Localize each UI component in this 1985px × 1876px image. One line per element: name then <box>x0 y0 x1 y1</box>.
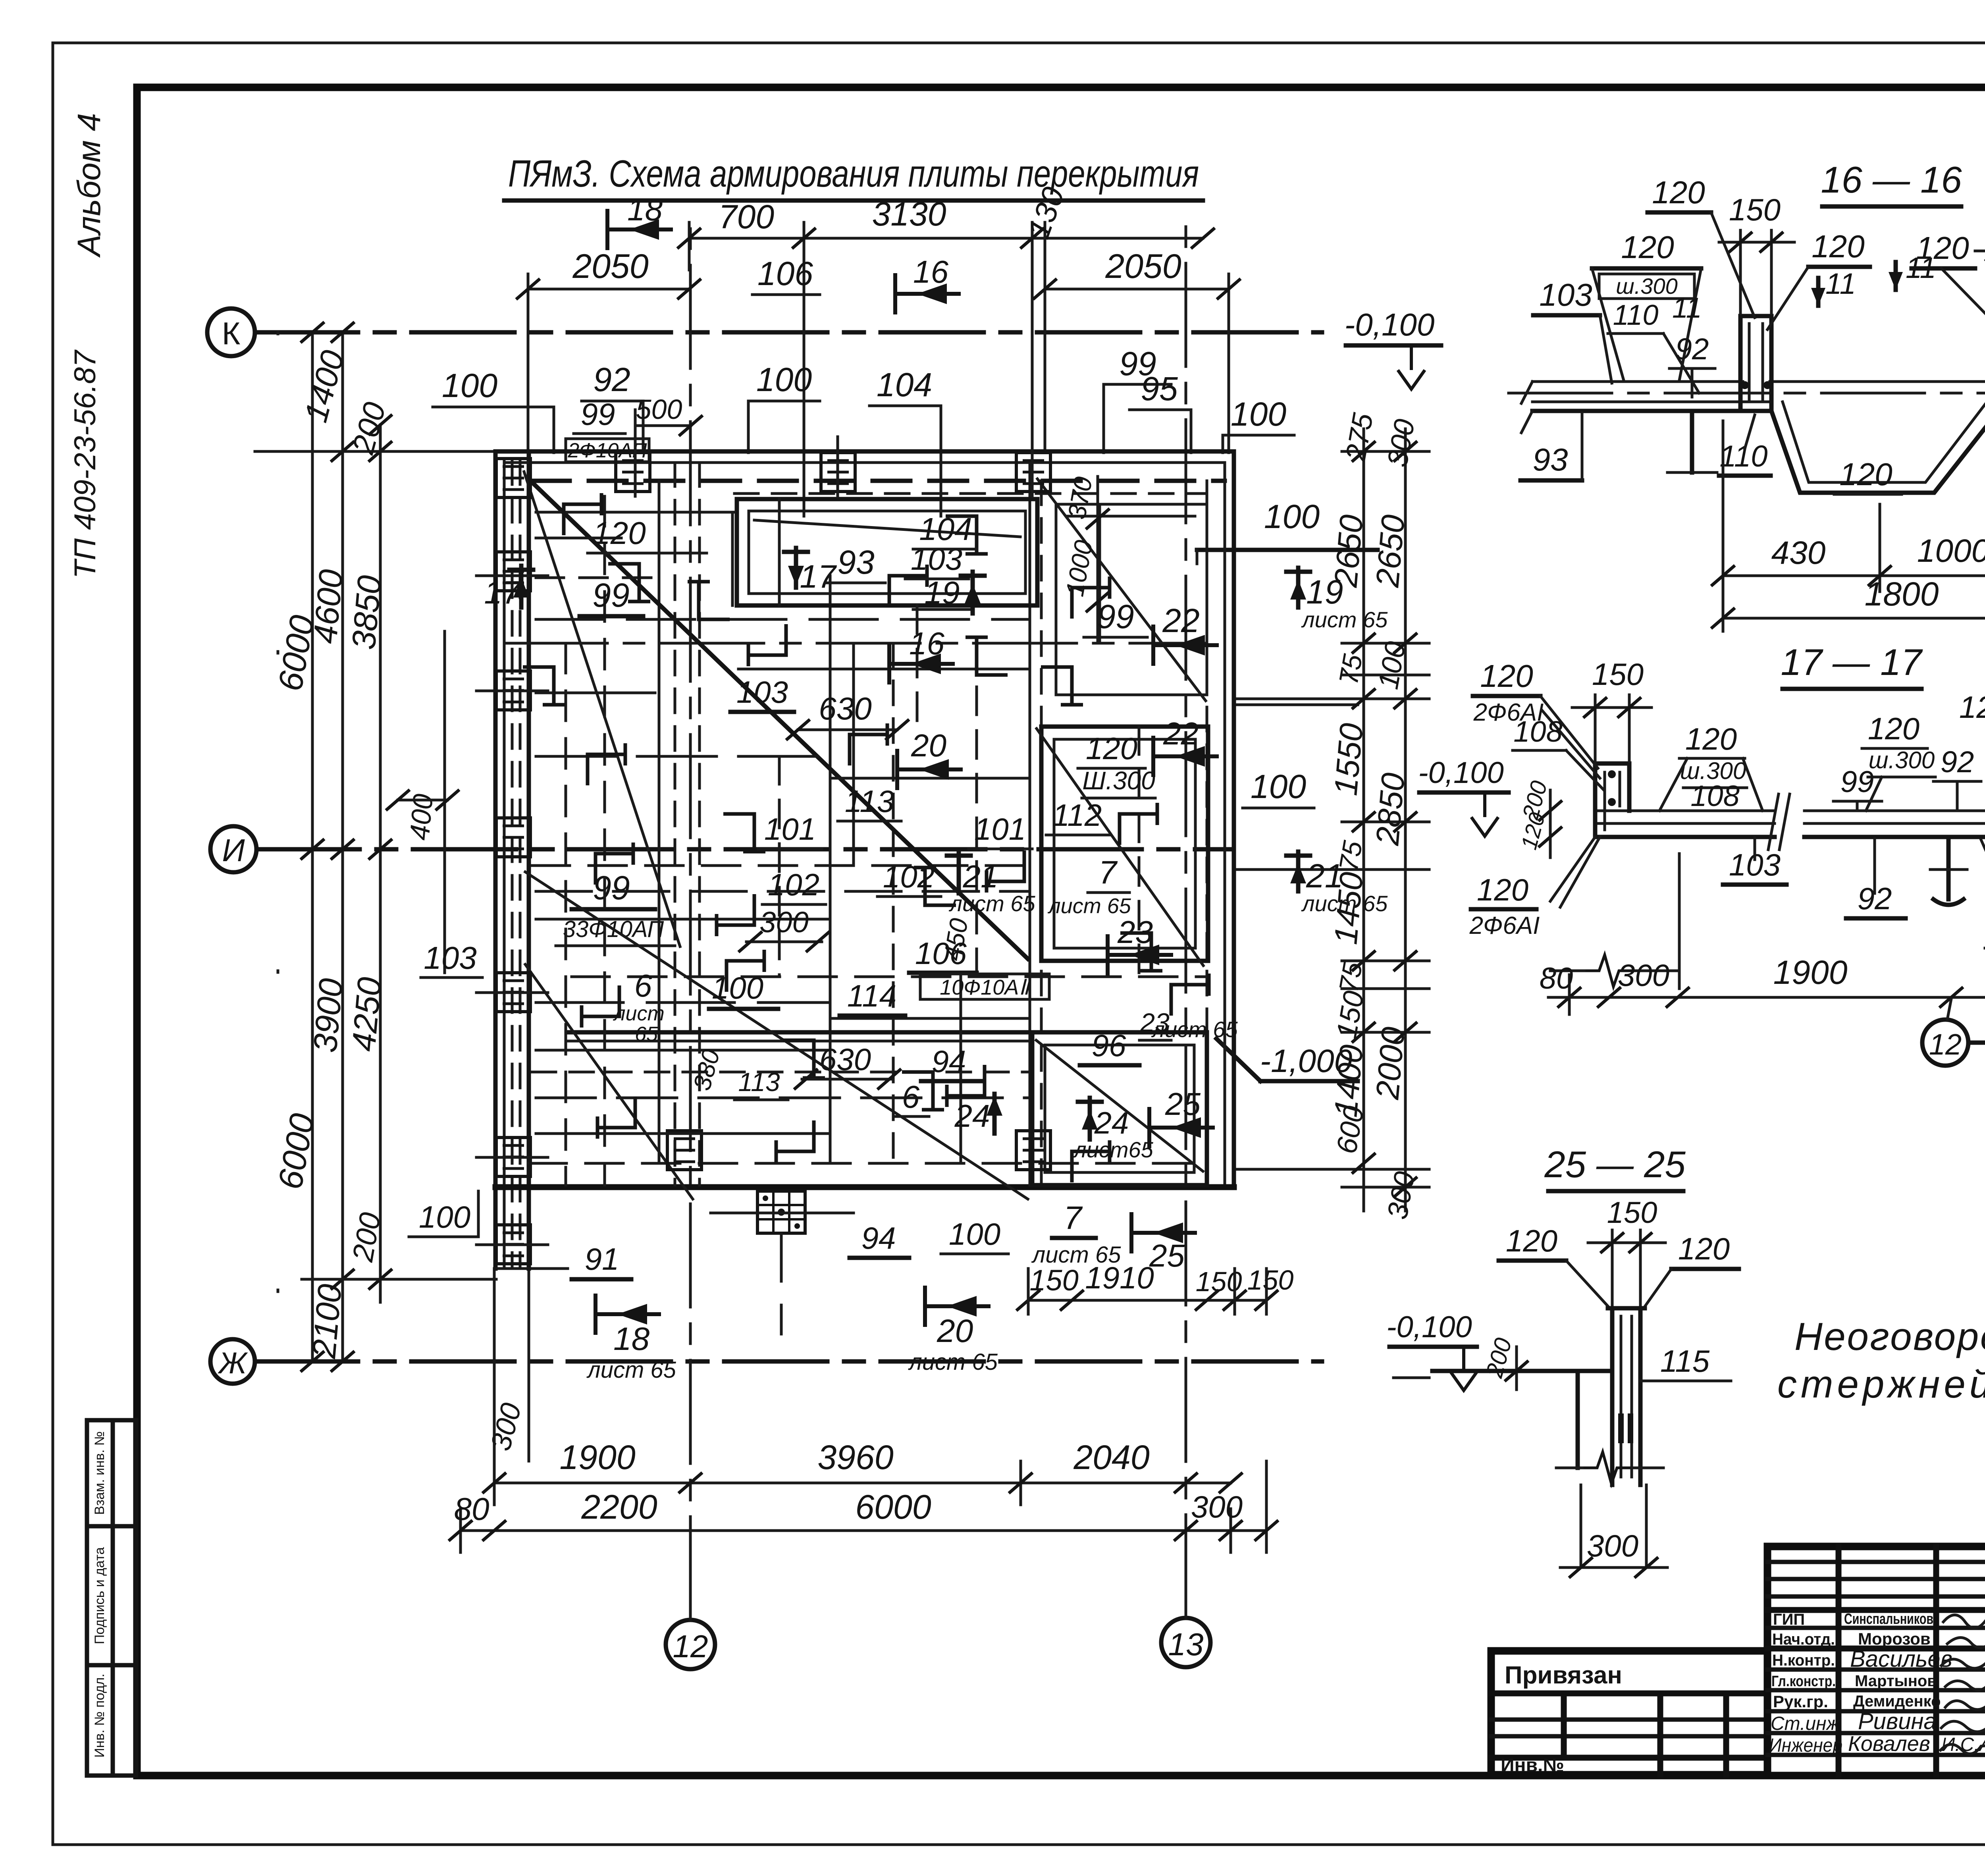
svg-text:Нач.отд.: Нач.отд. <box>1772 1631 1835 1648</box>
svg-text:Ст.инж: Ст.инж <box>1771 1713 1840 1734</box>
svg-text:500: 500 <box>636 394 682 425</box>
svg-text:16: 16 <box>913 254 948 289</box>
svg-text:108: 108 <box>1690 779 1739 812</box>
diagonal right-mid <box>1037 729 1203 966</box>
svg-text:ГИП: ГИП <box>1773 1611 1805 1628</box>
svg-text:лист 65: лист 65 <box>1301 607 1388 632</box>
interior horizontal dash y2460 <box>572 976 1207 978</box>
section 16-16 dims 430 1000 370 <box>1711 421 1985 631</box>
svg-text:Рук.гр.: Рук.гр. <box>1773 1692 1828 1711</box>
svg-text:2Ф6АІ: 2Ф6АІ <box>1469 912 1540 939</box>
svg-text:2050: 2050 <box>572 247 648 285</box>
right dim chain verticals <box>1235 429 1429 1211</box>
svg-text:стержней 200мм.: стержней 200мм. <box>1777 1362 1985 1406</box>
svg-text:99: 99 <box>581 397 615 432</box>
svg-text:112: 112 <box>1052 798 1102 833</box>
svg-text:Взам. инв. №: Взам. инв. № <box>92 1431 107 1515</box>
plan label 25 arrow upper <box>1149 1107 1215 1148</box>
right middle room <box>1041 727 1208 961</box>
right top room <box>1056 504 1207 695</box>
svg-text:150: 150 <box>1729 192 1781 227</box>
right bottom room <box>1032 1032 1207 1185</box>
plan cut 16 <box>889 643 955 684</box>
svg-text:Инв. № подл.: Инв. № подл. <box>92 1674 107 1758</box>
interior horizontal chain y1620 <box>504 642 1207 645</box>
svg-text:25: 25 <box>1149 1238 1185 1273</box>
svg-text:лист 65: лист 65 <box>948 891 1035 916</box>
plan label 23 <box>1108 934 1173 976</box>
section 17-17 circles 12 13 <box>1922 999 1985 1066</box>
plan cut 20 <box>897 749 963 790</box>
svg-text:120: 120 <box>1678 1231 1730 1266</box>
svg-text:94: 94 <box>861 1220 896 1255</box>
svg-text:113: 113 <box>845 784 894 819</box>
svg-text:75: 75 <box>1333 652 1368 687</box>
svg-text:93: 93 <box>1533 442 1568 477</box>
plan outer wall top <box>495 451 1234 494</box>
svg-text:103: 103 <box>736 675 788 710</box>
plan label 22 arrow <box>1153 736 1219 777</box>
svg-text:150: 150 <box>1592 657 1644 692</box>
svg-text:103: 103 <box>911 542 962 576</box>
svg-text:лист: лист <box>613 1002 665 1025</box>
svg-text:1550: 1550 <box>1328 722 1370 797</box>
svg-text:Инв.№: Инв.№ <box>1501 1755 1564 1776</box>
svg-text:91: 91 <box>585 1242 619 1276</box>
svg-text:120: 120 <box>1959 690 1985 725</box>
svg-text:17: 17 <box>800 559 837 595</box>
svg-text:21: 21 <box>1306 857 1343 895</box>
top cut 16 <box>895 273 961 314</box>
svg-text:лист65: лист65 <box>1073 1137 1154 1162</box>
svg-text:Подпись и дата: Подпись и дата <box>92 1547 107 1645</box>
section 16-16 T-bar below slab <box>1690 411 1694 472</box>
svg-text:92: 92 <box>1675 332 1709 366</box>
svg-text:Ривина: Ривина <box>1858 1708 1937 1734</box>
svg-text:7: 7 <box>1064 1200 1083 1236</box>
svg-text:2100: 2100 <box>305 1282 349 1360</box>
svg-text:700: 700 <box>719 198 774 235</box>
interior horizontal dash y2180 <box>532 864 1030 867</box>
svg-text:11: 11 <box>1825 267 1856 300</box>
svg-text:11: 11 <box>1672 292 1702 324</box>
svg-text:120: 120 <box>593 515 646 551</box>
left dimension chain lines <box>255 322 496 1372</box>
svg-text:Альбом 4: Альбом 4 <box>71 113 107 258</box>
svg-text:лист 65: лист 65 <box>1151 1017 1238 1042</box>
svg-text:Морозов: Морозов <box>1858 1629 1931 1648</box>
svg-text:2050: 2050 <box>1105 247 1181 285</box>
svg-text:103: 103 <box>424 940 476 976</box>
title block left attach section <box>1491 1651 1767 1776</box>
section 17-17 left flare lines <box>1550 837 1595 901</box>
svg-text:6: 6 <box>902 1079 920 1114</box>
svg-text:12: 12 <box>1929 1028 1962 1061</box>
interior vertical line x2091 <box>829 576 832 1163</box>
svg-text:лист 65: лист 65 <box>1301 891 1388 916</box>
svg-text:300: 300 <box>1618 958 1669 993</box>
svg-text:2850: 2850 <box>1369 771 1412 847</box>
svg-text:102: 102 <box>883 859 935 894</box>
svg-text:лист 65: лист 65 <box>908 1349 998 1375</box>
svg-text:24: 24 <box>1094 1105 1129 1140</box>
svg-text:Мартынов: Мартынов <box>1855 1672 1937 1690</box>
svg-text:4600: 4600 <box>306 568 350 645</box>
svg-text:120: 120 <box>1916 230 1969 266</box>
svg-text:101: 101 <box>974 812 1026 846</box>
section 17-17 break under left <box>1584 955 1634 987</box>
svg-text:Ж: Ж <box>217 1346 248 1380</box>
svg-text:103: 103 <box>1539 277 1592 312</box>
svg-text:300: 300 <box>1587 1528 1638 1563</box>
svg-text:120: 120 <box>1812 229 1864 264</box>
svg-text:99: 99 <box>592 576 629 614</box>
top dim line 700 / 3130 / 130 <box>677 183 1215 516</box>
section 16-16 left wing callout <box>1592 229 1701 380</box>
svg-text:лист 65: лист 65 <box>586 1357 676 1383</box>
svg-text:22: 22 <box>1162 602 1199 639</box>
svg-text:110: 110 <box>1613 299 1659 331</box>
svg-text:100: 100 <box>1251 768 1306 805</box>
svg-text:Васильев: Васильев <box>1850 1646 1952 1672</box>
svg-text:101: 101 <box>764 812 816 846</box>
diagonal top-right <box>1037 479 1206 701</box>
svg-text:3130: 3130 <box>872 195 946 233</box>
svg-text:лист 65: лист 65 <box>1031 1242 1122 1268</box>
svg-text:Гл.констр.: Гл.констр. <box>1771 1673 1836 1690</box>
axis 13 <box>1161 222 1210 1667</box>
svg-text:Привязан: Привязан <box>1505 1662 1622 1689</box>
svg-text:Инженер: Инженер <box>1769 1735 1842 1756</box>
svg-text:ТП 409-23-56.87: ТП 409-23-56.87 <box>68 349 102 578</box>
svg-text:96: 96 <box>1092 1028 1126 1063</box>
left stamp boxes <box>87 1420 136 1776</box>
svg-text:И: И <box>222 833 245 868</box>
bottom wall hatched columns <box>667 1131 701 1170</box>
svg-text:1900: 1900 <box>1773 954 1848 991</box>
section 17-17 vert dims 200 120 <box>1549 790 1552 858</box>
svg-text:18: 18 <box>627 192 663 227</box>
svg-text:108: 108 <box>1513 715 1562 748</box>
interior vertical line x2250 <box>892 643 895 1163</box>
extra rebar lines in plan <box>536 496 1139 1185</box>
svg-text:113: 113 <box>738 1067 780 1097</box>
svg-text:16: 16 <box>909 626 944 661</box>
svg-text:80: 80 <box>454 1491 490 1527</box>
section 16-16 slab <box>1509 382 1985 433</box>
svg-text:Ш.300: Ш.300 <box>1082 766 1155 795</box>
svg-text:95: 95 <box>1141 370 1178 407</box>
small cross ties on walls <box>476 437 1032 1245</box>
plan outer wall left <box>495 451 529 1269</box>
svg-text:ПЯмЗ. Схема армирования плиты: ПЯмЗ. Схема армирования плиты перекрытия <box>508 152 1199 195</box>
svg-text:150: 150 <box>1029 1264 1078 1297</box>
svg-text:150: 150 <box>1247 1265 1294 1296</box>
svg-text:120: 120 <box>1839 457 1892 492</box>
left wall columns <box>496 552 530 591</box>
svg-text:1900: 1900 <box>559 1438 635 1477</box>
svg-text:23: 23 <box>1117 914 1153 950</box>
svg-text:Ковалев: Ковалев <box>1848 1732 1930 1756</box>
verticals <box>1836 1546 1842 1775</box>
axis K <box>207 308 1322 356</box>
plan label 25 bottom <box>1131 1212 1197 1253</box>
svg-text:100: 100 <box>442 367 497 404</box>
section 25-25 left slab lines <box>1432 1369 1612 1373</box>
svg-text:120: 120 <box>1685 721 1737 756</box>
svg-text:99: 99 <box>593 869 630 906</box>
top-center opening rect <box>737 499 1037 605</box>
svg-text:92: 92 <box>593 361 630 398</box>
title block signatures squiggles <box>1941 1615 1985 1754</box>
plan bottom edge <box>495 1163 1234 1269</box>
svg-text:104: 104 <box>919 511 972 547</box>
svg-text:12: 12 <box>673 1629 708 1664</box>
svg-text:100: 100 <box>949 1217 1000 1251</box>
svg-text:К: К <box>222 316 241 351</box>
top dim 2050 left <box>516 247 701 453</box>
svg-text:10Ф10АⅡ: 10Ф10АⅡ <box>940 976 1031 999</box>
section 25-25 bottom dim 300 <box>1580 1485 1582 1566</box>
bottom cut 18 list65 <box>595 1294 661 1335</box>
section 25-25 break <box>1582 1452 1632 1484</box>
top dim 2050 right <box>1033 247 1241 453</box>
svg-text:120: 120 <box>1506 1223 1557 1258</box>
section 17-17 bottom dims 80 300 1900 700 <box>1540 954 1985 1014</box>
svg-text:93: 93 <box>837 544 874 581</box>
svg-text:100: 100 <box>419 1199 470 1234</box>
bottom dim row 150 1910 150 150 <box>1016 1260 1293 1314</box>
svg-text:Синспальников: Синспальников <box>1844 1611 1933 1627</box>
svg-text:120: 120 <box>1868 711 1919 746</box>
svg-text:120: 120 <box>1480 658 1533 694</box>
svg-text:80: 80 <box>1540 962 1573 995</box>
interior vertical wall at axis 12 <box>659 463 700 1185</box>
svg-text:7: 7 <box>1098 854 1118 891</box>
bottom cut 20 list65 <box>925 1286 991 1327</box>
section 17-17 I-beam below slab <box>1930 837 1967 905</box>
svg-text:120: 120 <box>1652 175 1705 210</box>
svg-text:Н.контр.: Н.контр. <box>1772 1652 1835 1669</box>
svg-text:-0,100: -0,100 <box>1345 307 1435 342</box>
section 16-16 left post <box>1740 316 1771 411</box>
svg-text:2040: 2040 <box>1073 1438 1149 1477</box>
svg-text:1000: 1000 <box>1917 533 1985 569</box>
svg-text:19: 19 <box>925 575 960 610</box>
svg-text:-0,100: -0,100 <box>1418 756 1504 790</box>
grid hatched box bottom center <box>757 1191 805 1233</box>
axis Zh <box>210 1339 1322 1384</box>
svg-text:150: 150 <box>1607 1196 1657 1230</box>
diagonal bottom-left steep <box>525 964 693 1199</box>
axis I <box>210 826 1231 872</box>
long diagonal steep <box>524 472 680 947</box>
svg-text:3900: 3900 <box>306 977 350 1054</box>
svg-text:24: 24 <box>954 1098 990 1134</box>
svg-text:65: 65 <box>635 1023 658 1046</box>
svg-text:6: 6 <box>634 968 652 1003</box>
svg-text:1800: 1800 <box>1865 575 1939 613</box>
svg-text:300: 300 <box>759 906 808 939</box>
svg-text:19: 19 <box>1306 573 1343 611</box>
svg-text:120: 120 <box>1477 872 1528 907</box>
svg-text:18: 18 <box>613 1321 650 1357</box>
plan cut 17 top arrow <box>794 548 798 588</box>
section 25-25 wall <box>1608 1308 1645 1485</box>
top mini rows <box>1767 1560 1985 1564</box>
svg-text:106: 106 <box>757 255 813 292</box>
svg-text:25 — 25: 25 — 25 <box>1544 1143 1686 1185</box>
svg-text:6000: 6000 <box>855 1488 931 1526</box>
svg-text:92: 92 <box>1941 745 1974 779</box>
section 17-17 slab <box>1595 794 1985 850</box>
svg-text:2200: 2200 <box>581 1488 657 1526</box>
top dim row: 18 cut symbol <box>607 209 673 250</box>
top wall columns <box>616 453 650 492</box>
interior horizontal dash y2700 <box>532 1071 1030 1074</box>
svg-text:102: 102 <box>768 867 819 902</box>
svg-text:115: 115 <box>1660 1344 1710 1379</box>
section 16-16 dims 1800 300 1400 <box>1711 469 1985 633</box>
svg-text:99: 99 <box>1840 765 1874 799</box>
rebar hook brackets scatter <box>564 493 601 535</box>
svg-text:-1,000: -1,000 <box>1260 1043 1353 1079</box>
svg-text:94: 94 <box>932 1044 966 1079</box>
svg-text:13: 13 <box>1168 1627 1204 1662</box>
svg-text:100: 100 <box>1231 395 1286 433</box>
svg-text:3960: 3960 <box>817 1438 893 1477</box>
svg-text:4250: 4250 <box>345 976 388 1053</box>
svg-text:120: 120 <box>1086 731 1137 766</box>
svg-text:100: 100 <box>1264 498 1320 535</box>
svg-text:114: 114 <box>847 978 896 1013</box>
section 16-16 pit trapezoid <box>1771 411 1985 493</box>
bottom dim 1900 3960 2040 <box>482 1438 1243 1505</box>
svg-text:25: 25 <box>1165 1086 1201 1122</box>
svg-text:630: 630 <box>819 1042 871 1077</box>
svg-text:110: 110 <box>1719 440 1767 473</box>
svg-text:20: 20 <box>911 728 946 763</box>
svg-text:430: 430 <box>1771 535 1826 571</box>
svg-text:3850: 3850 <box>345 574 388 651</box>
svg-text:100: 100 <box>756 361 812 398</box>
svg-text:Демиденко: Демиденко <box>1853 1693 1941 1710</box>
svg-text:ш.300: ш.300 <box>1616 274 1677 299</box>
svg-text:630: 630 <box>819 691 871 726</box>
axis 12 <box>666 222 715 1669</box>
bottom dim 80 2200 6000 300 <box>449 1461 1278 1552</box>
plan outer wall right <box>1207 451 1234 1187</box>
long diagonal 2 <box>525 872 1028 1199</box>
svg-text:16 — 16: 16 — 16 <box>1821 159 1962 201</box>
svg-text:21: 21 <box>963 859 998 894</box>
svg-text:120: 120 <box>1621 229 1674 265</box>
svg-text:2000: 2000 <box>1369 1026 1412 1101</box>
section 25-25 vert dim 200 <box>1515 1347 1518 1390</box>
svg-text:104: 104 <box>877 366 932 403</box>
svg-text:100: 100 <box>712 970 763 1005</box>
svg-text:20: 20 <box>937 1313 973 1349</box>
interior wall x2594 <box>1030 463 1041 1185</box>
svg-text:17 — 17: 17 — 17 <box>1781 641 1923 683</box>
long diagonal 1 <box>528 478 1028 959</box>
title block main <box>1767 1546 1985 1776</box>
svg-text:-0,100: -0,100 <box>1386 1310 1472 1344</box>
svg-text:300: 300 <box>1191 1489 1243 1524</box>
svg-text:ш.300: ш.300 <box>1869 747 1935 773</box>
svg-text:22: 22 <box>1163 716 1199 751</box>
svg-text:99: 99 <box>1097 598 1134 635</box>
diagonal right-bottom <box>1036 1040 1203 1171</box>
section 17-17 left stub <box>1595 764 1629 837</box>
